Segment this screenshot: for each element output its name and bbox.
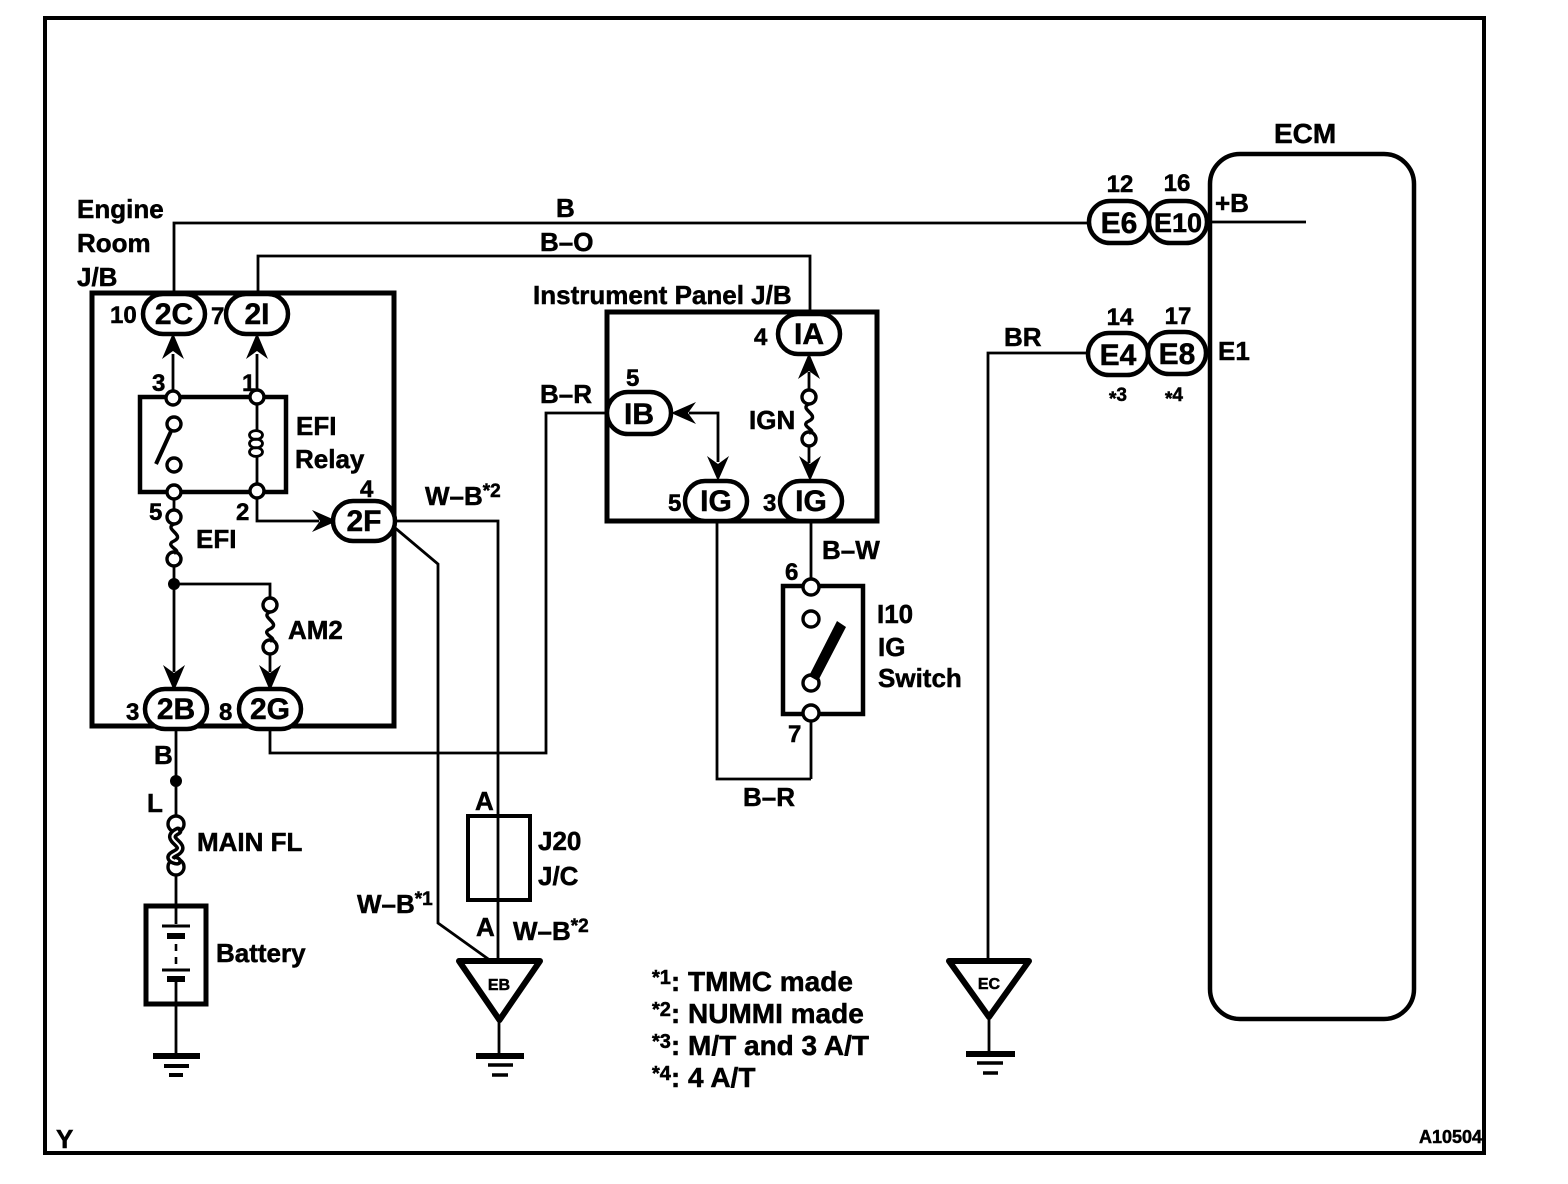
svg-text:2B: 2B — [157, 693, 195, 726]
svg-text:4: 4 — [360, 476, 374, 503]
wire W-B*1 from 2F to EB — [394, 527, 491, 961]
svg-text:AM2: AM2 — [288, 615, 343, 645]
svg-text:+B: +B — [1215, 188, 1249, 218]
connector 2C — [143, 294, 205, 334]
arrow into 2G — [259, 665, 281, 691]
wire relay pin 2 to 2F — [257, 498, 319, 521]
wire from IB arrow down to IG left — [689, 413, 718, 462]
svg-text:5: 5 — [668, 490, 681, 517]
wire 2I to relay pin 1 — [256, 354, 259, 390]
svg-text:*3: M/T and 3 A/T: *3: M/T and 3 A/T — [652, 1030, 869, 1061]
svg-text:B: B — [154, 740, 173, 770]
svg-text:A10504: A10504 — [1419, 1127, 1482, 1147]
svg-text:7: 7 — [788, 721, 801, 748]
svg-text:E10: E10 — [1154, 208, 1202, 238]
wire IG right down to IG switch pin 6 — [810, 522, 813, 580]
svg-text:E6: E6 — [1101, 207, 1138, 240]
connector E8 — [1148, 332, 1206, 374]
svg-text:EC: EC — [978, 976, 1001, 993]
connector E6 — [1089, 201, 1149, 243]
svg-text:4: 4 — [754, 324, 768, 351]
svg-text:BR: BR — [1004, 322, 1042, 352]
svg-text:IB: IB — [624, 398, 654, 431]
wire relay pin 5 to EFI fuse — [173, 499, 176, 511]
svg-text:IG: IG — [878, 632, 905, 662]
wire W-B*2 from 2F through J20 to EB — [394, 521, 498, 961]
fusible link MAIN FL — [168, 816, 184, 832]
connector IG left — [685, 481, 747, 521]
relay pin 5 — [167, 485, 181, 499]
svg-text:EFI: EFI — [196, 524, 236, 554]
svg-text:*1: TMMC made: *1: TMMC made — [652, 966, 853, 997]
wire EB triangle to ground — [498, 1020, 501, 1054]
connector 2G — [239, 689, 301, 729]
svg-text:7: 7 — [211, 303, 224, 330]
svg-text:IG: IG — [795, 485, 827, 518]
wire IG left down to IG switch pin 7 — [717, 522, 811, 779]
svg-text:IG: IG — [700, 485, 732, 518]
connector IG right — [780, 481, 842, 521]
junction dot above MAIN FL — [170, 775, 182, 787]
svg-text:Battery: Battery — [216, 938, 306, 968]
svg-text:2C: 2C — [155, 298, 193, 331]
wire IG switch pin 7 down — [810, 721, 813, 779]
fuse IGN — [802, 390, 816, 404]
arrow into IG right — [799, 456, 821, 481]
svg-text:IA: IA — [794, 318, 824, 351]
svg-text:2F: 2F — [346, 505, 381, 538]
svg-text:Y: Y — [56, 1124, 73, 1154]
connector E4 — [1088, 333, 1148, 375]
IG switch lever — [809, 621, 846, 681]
connector IB — [607, 392, 671, 434]
battery — [146, 906, 206, 1004]
arrow into 2I — [246, 333, 268, 359]
svg-text:*2: NUMMI made: *2: NUMMI made — [652, 998, 864, 1029]
svg-text:Room: Room — [77, 228, 151, 258]
J20 J/C junction connector box — [468, 816, 530, 900]
svg-text:Switch: Switch — [878, 663, 962, 693]
ground EB — [459, 961, 540, 1020]
relay pin 2 — [250, 484, 264, 498]
arrow into 2B — [163, 665, 185, 691]
wire battery to ground — [175, 1004, 178, 1054]
wire B-R from 2G to IB — [270, 413, 608, 753]
svg-text:14: 14 — [1107, 304, 1134, 331]
connector E10 — [1149, 201, 1207, 243]
wire 2C to relay pin 3 — [172, 354, 175, 392]
connector 2F — [333, 501, 395, 541]
svg-text:6: 6 — [785, 559, 798, 586]
svg-text:I10: I10 — [877, 599, 913, 629]
svg-text:J20: J20 — [538, 826, 581, 856]
svg-text:3: 3 — [152, 370, 165, 397]
svg-text:A: A — [475, 786, 494, 816]
svg-text:B–W: B–W — [822, 535, 880, 565]
svg-text:IGN: IGN — [749, 405, 795, 435]
wire BR from E4 to EC ground — [988, 353, 1090, 959]
fuse EFI — [167, 510, 181, 524]
svg-text:Engine: Engine — [77, 194, 164, 224]
svg-text:E1: E1 — [1218, 336, 1250, 366]
ECM box — [1210, 154, 1414, 1019]
svg-text:J/B: J/B — [77, 262, 117, 292]
wire EFI fuse to 2B with junction — [173, 566, 176, 672]
wire branch to AM2 fuse — [174, 584, 270, 598]
svg-text:B: B — [556, 193, 575, 223]
svg-text:1: 1 — [242, 370, 255, 397]
connector IA — [778, 314, 840, 354]
relay switch blade — [156, 429, 172, 464]
junction dot below EFI fuse — [168, 578, 180, 590]
wire AM2 fuse to 2G — [269, 654, 272, 672]
svg-text:EB: EB — [488, 977, 510, 994]
svg-text:J/C: J/C — [538, 861, 579, 891]
svg-text:B–R: B–R — [540, 379, 592, 409]
svg-text:E8: E8 — [1159, 338, 1196, 371]
svg-text:8: 8 — [219, 699, 232, 726]
ground below battery — [153, 1053, 200, 1059]
svg-text:Instrument Panel J/B: Instrument Panel J/B — [533, 280, 792, 310]
IG switch box I10 — [783, 586, 863, 714]
relay pin 1 — [250, 390, 264, 404]
svg-text:E4: E4 — [1100, 339, 1137, 372]
Instrument Panel J/B box — [607, 312, 877, 521]
svg-text:Relay: Relay — [295, 444, 365, 474]
ground EC — [949, 961, 1029, 1017]
svg-text:2I: 2I — [244, 298, 269, 331]
svg-text:16: 16 — [1164, 170, 1191, 197]
svg-text:12: 12 — [1107, 171, 1134, 198]
svg-text:3: 3 — [126, 699, 139, 726]
svg-text:5: 5 — [149, 499, 162, 526]
svg-text:3: 3 — [763, 490, 776, 517]
wire B-O from 2I to IA — [258, 256, 810, 315]
svg-text:L: L — [147, 788, 163, 818]
arrow into IB — [671, 402, 696, 424]
IG switch contact circles — [803, 579, 819, 595]
svg-text:EFI: EFI — [296, 411, 336, 441]
svg-text:5: 5 — [626, 365, 639, 392]
svg-text:10: 10 — [110, 302, 137, 329]
connector 2B — [145, 689, 207, 729]
svg-text:B–R: B–R — [743, 782, 795, 812]
arrow into IG left — [707, 456, 729, 481]
EFI relay box — [140, 397, 286, 492]
Engine Room J/B box — [92, 293, 394, 726]
arrow into 2C — [162, 333, 184, 359]
svg-text:MAIN FL: MAIN FL — [197, 827, 303, 857]
arrow into IA — [798, 353, 820, 379]
wire 2B to battery — [175, 728, 178, 906]
fuse AM2 — [263, 598, 277, 612]
relay pin 3 — [166, 391, 180, 405]
svg-text:B–O: B–O — [540, 227, 593, 257]
svg-text:2: 2 — [236, 499, 249, 526]
connector 2I — [226, 294, 288, 334]
arrow into 2F — [312, 510, 337, 532]
svg-text:A: A — [476, 912, 495, 942]
relay switch contact circles — [167, 417, 181, 431]
svg-text:17: 17 — [1165, 303, 1192, 330]
wire +B inside ECM — [1206, 221, 1306, 224]
wire B from 2C to E6 — [174, 223, 1089, 296]
svg-text:ECM: ECM — [1274, 118, 1336, 149]
svg-text:2G: 2G — [250, 693, 290, 726]
wire EC triangle to ground — [988, 1017, 991, 1051]
relay coil — [256, 404, 259, 484]
